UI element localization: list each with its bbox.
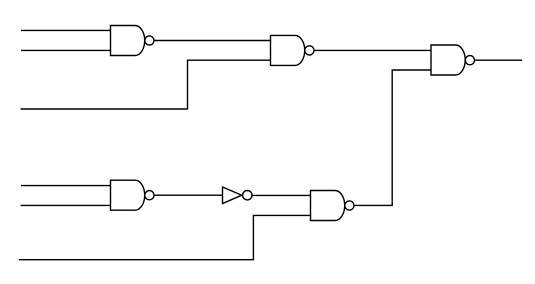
- wire: U5 output up to U3 pin 2 (run, rise, entry): [354, 70, 432, 205]
- wire: U1 output to U2 pin 1: [154, 40, 271, 42]
- wire: U2 output to U3 pin 1: [314, 49, 432, 51]
- wire: U3 output (circuit output): [475, 59, 523, 61]
- wire: input B to U1 pin 2: [21, 49, 111, 51]
- wire: input F to U5 pin 2 (bottom rail, rise, entry): [19, 215, 311, 259]
- nand gate U2: [271, 35, 315, 65]
- wire: U6 output to U5 pin 1: [252, 194, 311, 196]
- wire: U4 output to inverter U6 input: [154, 194, 223, 196]
- wire: input A to U1 pin 1: [21, 29, 111, 31]
- nand gate U1: [111, 26, 154, 56]
- wire: input C to U2 pin 2 (horizontal run, rise, entry): [21, 60, 272, 109]
- nand gate U4: [111, 180, 154, 210]
- nand gate U3: [431, 45, 475, 75]
- inverter U6: [223, 187, 253, 204]
- wire: input D to U4 pin 1: [21, 185, 111, 187]
- nand gate U5: [311, 191, 355, 221]
- wire: input E to U4 pin 2: [21, 204, 112, 206]
